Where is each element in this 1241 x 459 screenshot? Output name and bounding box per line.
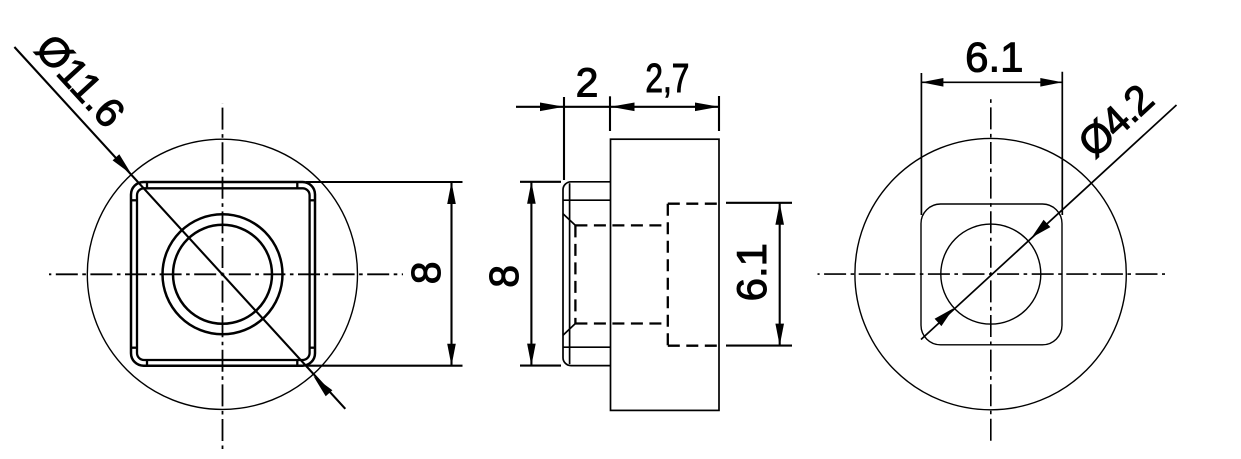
square body outline bbox=[131, 182, 315, 366]
hidden counterbore top bbox=[668, 203, 719, 205]
arrowhead 8 left top bbox=[447, 182, 456, 204]
dimension D11.6 diagonal line bbox=[14, 47, 345, 409]
flange corner fillet line bottom bbox=[563, 346, 611, 348]
flange corner fillet line top bbox=[563, 199, 611, 201]
hidden chamfer edge vertical bbox=[574, 225, 576, 323]
dimension 6.1 middle: dim line bbox=[779, 203, 781, 346]
svg-text:6.1: 6.1 bbox=[965, 33, 1023, 80]
arrowhead 2 outside left bbox=[540, 103, 564, 112]
flange chamfer vertical edge bbox=[569, 183, 571, 364]
outer cylinder circle D11.6 bbox=[87, 139, 357, 409]
svg-text:2: 2 bbox=[576, 59, 599, 105]
svg-text:8: 8 bbox=[403, 261, 449, 284]
chamfer stub left-top bbox=[131, 199, 137, 201]
dimension 2 extension line left bbox=[563, 97, 565, 180]
chamfer stub top-left bbox=[146, 182, 148, 188]
arrowhead 8 middle top bbox=[527, 182, 536, 204]
arrowhead 8 left bottom bbox=[447, 344, 456, 366]
arrowhead 6.1 right right bbox=[1040, 78, 1062, 87]
arrowhead 2,7 right bbox=[695, 103, 719, 112]
thread inner circle bbox=[173, 225, 272, 324]
dimension D4.2 diagonal line bbox=[921, 105, 1177, 340]
chamfer stub left-bottom bbox=[131, 347, 137, 349]
outer cylinder circle right view bbox=[855, 138, 1126, 409]
dimension line 2 and 2,7 bbox=[516, 106, 719, 108]
dimension 8 middle: extension top bbox=[520, 181, 561, 183]
hidden thread hole bottom bbox=[575, 322, 667, 324]
hidden thread hole top bbox=[575, 224, 667, 226]
dimension 8 middle: extension bottom bbox=[520, 365, 561, 367]
arrowhead D4.2 lower bbox=[935, 308, 954, 326]
arrowhead D11.6 upper bbox=[113, 154, 132, 174]
hole chamfer diagonal top bbox=[563, 214, 575, 226]
dimension 6.1 right: extension left bbox=[920, 73, 922, 215]
chamfer stub bottom-right bbox=[296, 359, 298, 365]
svg-text:8: 8 bbox=[481, 265, 527, 288]
centerline horizontal right view bbox=[818, 273, 1166, 275]
counterbore square right view bbox=[921, 204, 1062, 345]
hole chamfer diagonal bottom bbox=[563, 324, 575, 336]
dimension 6.1 middle: extension top bbox=[726, 202, 792, 204]
arrowhead 6.1 middle top bbox=[775, 203, 784, 225]
dimension 6.1 right: dim line bbox=[921, 81, 1062, 83]
dimension 6.1 middle: extension bottom bbox=[726, 345, 792, 347]
dimension 8 left view: dim line bbox=[450, 182, 452, 366]
square flange outline bbox=[563, 182, 611, 366]
svg-text:6.1: 6.1 bbox=[728, 243, 775, 301]
arrowhead 6.1 right left bbox=[921, 78, 943, 87]
arrowhead 2,7 left bbox=[611, 103, 635, 112]
centerline horizontal left view bbox=[49, 273, 403, 275]
dimension 8 middle: dim line bbox=[530, 182, 532, 366]
chamfer stub top-right bbox=[296, 182, 298, 188]
chamfer stub bottom-left bbox=[146, 359, 148, 365]
dimension 6.1 right: extension right bbox=[1061, 72, 1063, 215]
arrowhead D4.2 upper bbox=[1032, 220, 1051, 238]
centerline vertical right view bbox=[990, 95, 992, 445]
dimension 8 left view: extension bottom bbox=[306, 365, 463, 367]
hidden counterbore step vertical bbox=[667, 204, 669, 346]
hole circle D4.2 bbox=[941, 224, 1041, 324]
hidden counterbore bottom bbox=[668, 345, 719, 347]
chamfer stub right-top bbox=[310, 199, 315, 201]
chamfer inner outline bbox=[137, 188, 310, 360]
dimension 2,7 extension line right bbox=[718, 96, 720, 131]
arrowhead 6.1 middle bottom bbox=[775, 324, 784, 346]
centerline vertical left view bbox=[222, 103, 224, 449]
arrowhead 8 middle bottom bbox=[527, 344, 536, 366]
dimension 2/2,7 extension line middle bbox=[609, 96, 611, 131]
cylinder body rectangle bbox=[611, 139, 720, 410]
chamfer stub right-bottom bbox=[310, 347, 315, 349]
dimension 8 left view: extension top bbox=[306, 181, 463, 183]
svg-text:2,7: 2,7 bbox=[645, 55, 689, 101]
thread outer circle bbox=[163, 214, 283, 334]
svg-text:Ø4.2: Ø4.2 bbox=[1069, 76, 1161, 166]
arrowhead D11.6 lower bbox=[314, 376, 333, 396]
